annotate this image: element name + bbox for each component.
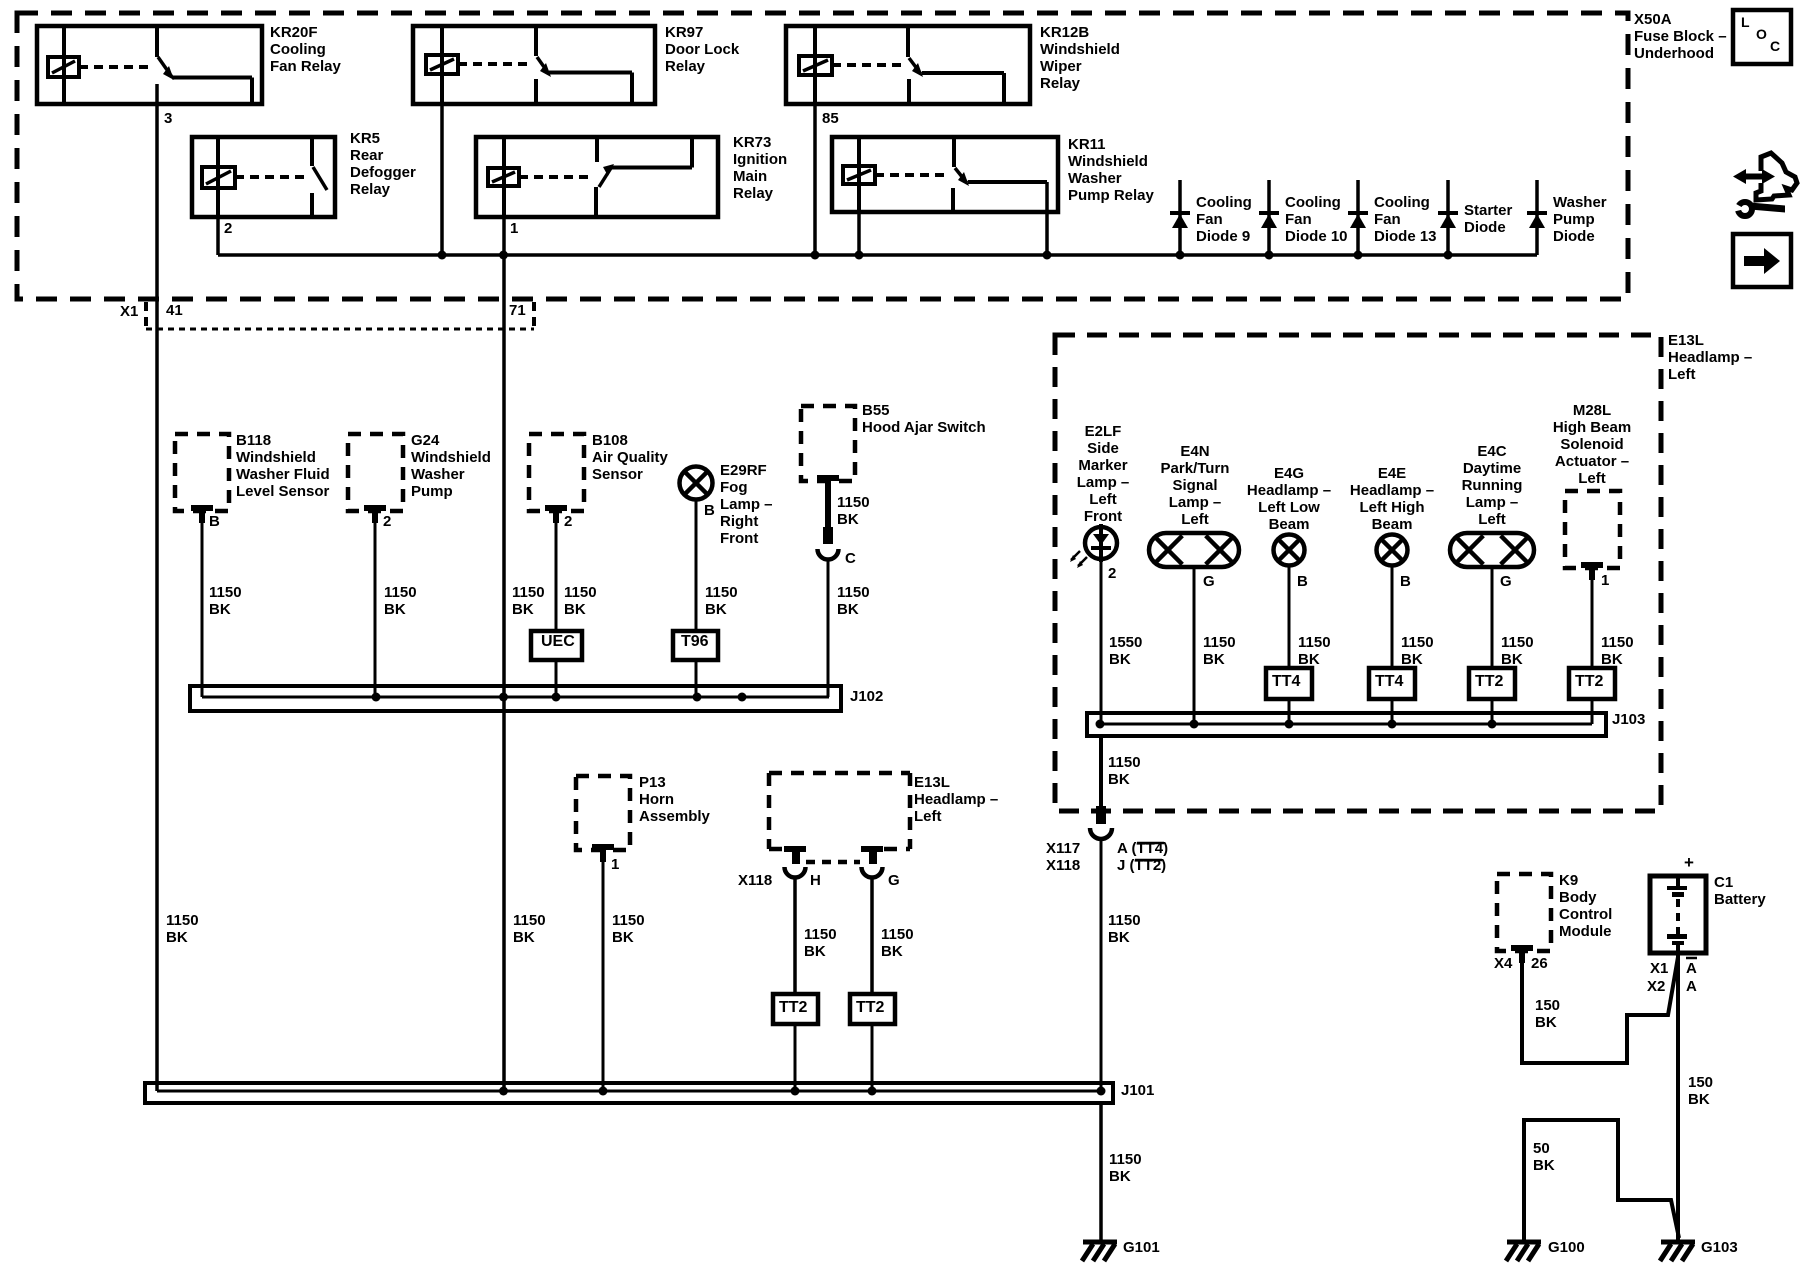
svg-text:C: C [845, 550, 856, 567]
svg-text:Diode: Diode [1464, 219, 1506, 236]
svg-text:Front: Front [1084, 508, 1122, 525]
wire E4N to J103 [1193, 567, 1196, 724]
svg-text:Air Quality: Air Quality [592, 449, 669, 466]
svg-text:Cooling: Cooling [1374, 194, 1430, 211]
svg-text:Fuse Block –: Fuse Block – [1634, 28, 1727, 45]
svg-text:BK: BK [1501, 651, 1523, 668]
svg-text:150: 150 [1535, 997, 1560, 1014]
junction dots on J101 [499, 1087, 1106, 1096]
wire B108 to UEC [555, 523, 558, 631]
svg-text:1150: 1150 [1601, 634, 1634, 651]
svg-text:1150: 1150 [512, 584, 545, 601]
svg-text:Marker: Marker [1078, 457, 1127, 474]
ground G100 [1506, 1242, 1541, 1261]
svg-text:150: 150 [1688, 1074, 1713, 1091]
svg-text:Beam: Beam [1269, 516, 1310, 533]
ground G101 [1082, 1242, 1117, 1261]
starter diode [1438, 180, 1458, 255]
svg-text:Relay: Relay [665, 58, 706, 75]
svg-text:TT4: TT4 [1272, 673, 1301, 690]
svg-text:J103: J103 [1612, 711, 1645, 728]
svg-text:Relay: Relay [1040, 75, 1081, 92]
icon forward arrow box [1733, 234, 1791, 287]
svg-text:B55: B55 [862, 402, 890, 419]
svg-text:Right: Right [720, 513, 758, 530]
svg-text:BK: BK [166, 929, 188, 946]
svg-text:Module: Module [1559, 923, 1612, 940]
wire TT2 to J101 [794, 1024, 797, 1091]
svg-text:X2: X2 [1647, 978, 1665, 995]
svg-text:Diode: Diode [1553, 228, 1595, 245]
icon vehicle part with arrows and wrench [1728, 153, 1797, 216]
wire G24 to J102 [374, 523, 377, 697]
svg-text:1150: 1150 [1108, 754, 1141, 771]
svg-text:2: 2 [224, 220, 232, 237]
svg-text:BK: BK [1203, 651, 1225, 668]
svg-text:Relay: Relay [733, 185, 774, 202]
svg-text:BK: BK [1535, 1014, 1557, 1031]
fuse block X50A dashed border [17, 13, 1628, 299]
svg-text:KR20F: KR20F [270, 24, 318, 41]
svg-text:A: A [1686, 960, 1697, 977]
svg-text:Assembly: Assembly [639, 808, 711, 825]
connector X117/X118 inline [1090, 806, 1112, 839]
svg-text:T96: T96 [681, 633, 709, 650]
svg-text:Cooling: Cooling [270, 41, 326, 58]
splice bus J103 [1087, 713, 1606, 736]
wire B118 to J102 [201, 523, 204, 697]
wire KR5 pin 2 to bus [216, 217, 220, 255]
svg-text:Diode 13: Diode 13 [1374, 228, 1437, 245]
svg-text:BK: BK [384, 601, 406, 618]
svg-text:Lamp –: Lamp – [1077, 474, 1130, 491]
svg-text:KR5: KR5 [350, 130, 380, 147]
svg-text:Rear: Rear [350, 147, 384, 164]
svg-text:Windshield: Windshield [236, 449, 316, 466]
wire E4C to TT2 [1491, 567, 1494, 668]
svg-text:Starter: Starter [1464, 202, 1513, 219]
svg-text:P13: P13 [639, 774, 666, 791]
svg-text:KR73: KR73 [733, 134, 771, 151]
wire TT4 to J103 [1391, 699, 1394, 724]
wire E4G to TT4 [1288, 566, 1291, 668]
svg-text:BK: BK [513, 929, 535, 946]
svg-text:Pump: Pump [1553, 211, 1595, 228]
svg-text:Diode 10: Diode 10 [1285, 228, 1348, 245]
component B108 Air Quality Sensor dashed box [529, 434, 584, 523]
svg-text:B118: B118 [236, 432, 271, 449]
svg-text:Pump Relay: Pump Relay [1068, 187, 1155, 204]
wire E4E to TT4 [1391, 566, 1394, 668]
svg-text:G: G [888, 872, 900, 889]
svg-text:1550: 1550 [1109, 634, 1142, 651]
lamp E4E Headlamp Left High Beam [1377, 535, 1408, 566]
svg-text:BK: BK [1401, 651, 1423, 668]
svg-text:Left: Left [1668, 366, 1696, 383]
svg-text:1150: 1150 [837, 584, 870, 601]
svg-text:Underhood: Underhood [1634, 45, 1714, 62]
component K9 Body Control Module dashed box [1497, 874, 1551, 963]
svg-text:Cooling: Cooling [1285, 194, 1341, 211]
svg-text:G101: G101 [1123, 1239, 1160, 1256]
junction dots on J102 [372, 693, 747, 702]
svg-text:BK: BK [1108, 929, 1130, 946]
battery C1 [1650, 876, 1706, 953]
svg-text:1150: 1150 [166, 912, 199, 929]
svg-text:TT2: TT2 [1575, 673, 1604, 690]
svg-text:Washer Fluid: Washer Fluid [236, 466, 330, 483]
washer pump diode [1527, 180, 1547, 255]
svg-text:X1: X1 [1650, 960, 1668, 977]
svg-text:1: 1 [510, 220, 518, 237]
svg-text:BK: BK [564, 601, 586, 618]
svg-text:B: B [704, 502, 715, 519]
component G24 Windshield Washer Pump dashed box [348, 434, 403, 523]
svg-text:J102: J102 [850, 688, 883, 705]
svg-text:Fog: Fog [720, 479, 748, 496]
svg-text:Washer: Washer [411, 466, 465, 483]
wire TT2 to J103 [1591, 699, 1594, 724]
svg-text:BK: BK [1109, 1168, 1131, 1185]
testpoint TT2 box [1569, 668, 1615, 699]
svg-text:1150: 1150 [1109, 1151, 1142, 1168]
svg-text:UEC: UEC [541, 633, 575, 650]
svg-text:Washer: Washer [1068, 170, 1122, 187]
svg-text:G: G [1500, 573, 1512, 590]
svg-text:E4G: E4G [1274, 465, 1304, 482]
svg-text:Door Lock: Door Lock [665, 41, 740, 58]
svg-text:BK: BK [837, 601, 859, 618]
svg-text:Headlamp –: Headlamp – [914, 791, 998, 808]
svg-text:BK: BK [1108, 771, 1130, 788]
svg-text:Control: Control [1559, 906, 1612, 923]
svg-text:E4C: E4C [1477, 443, 1506, 460]
svg-text:85: 85 [822, 110, 839, 127]
relay KR12B [786, 26, 1030, 104]
svg-text:Signal: Signal [1172, 477, 1217, 494]
wire KR73 pin 1 long wire to J101 [502, 217, 506, 1091]
svg-text:Relay: Relay [350, 181, 391, 198]
svg-text:Left: Left [1478, 511, 1506, 528]
svg-text:E4E: E4E [1378, 465, 1406, 482]
wire KR20F pin 3 to J101 [155, 84, 159, 1091]
label A-bar A [1686, 958, 1697, 995]
testpoint TT2 box [773, 994, 818, 1024]
svg-text:O: O [1756, 26, 1767, 42]
svg-text:1150: 1150 [1401, 634, 1434, 651]
splice bus J102 [190, 686, 841, 711]
svg-text:BK: BK [209, 601, 231, 618]
svg-text:41: 41 [166, 302, 183, 319]
svg-text:E2LF: E2LF [1085, 423, 1122, 440]
svg-text:B: B [209, 513, 220, 530]
svg-text:Beam: Beam [1372, 516, 1413, 533]
wire T96 to J102 [695, 660, 698, 697]
connector T96 box [673, 631, 718, 660]
svg-text:A: A [1686, 978, 1697, 995]
svg-text:Park/Turn: Park/Turn [1161, 460, 1230, 477]
connector C inline [818, 527, 839, 560]
svg-text:Daytime: Daytime [1463, 460, 1521, 477]
svg-text:Battery: Battery [1714, 891, 1766, 908]
svg-text:1: 1 [611, 856, 619, 873]
svg-text:G103: G103 [1701, 1239, 1738, 1256]
svg-text:X118: X118 [738, 872, 772, 889]
svg-text:1150: 1150 [881, 926, 914, 943]
svg-text:X117: X117 [1046, 840, 1080, 857]
svg-text:1150: 1150 [513, 912, 546, 929]
svg-text:X1: X1 [120, 303, 138, 320]
svg-text:KR12B: KR12B [1040, 24, 1089, 41]
svg-text:B: B [1400, 573, 1411, 590]
svg-text:Left: Left [1181, 511, 1209, 528]
svg-text:Washer: Washer [1553, 194, 1607, 211]
svg-text:Headlamp –: Headlamp – [1350, 482, 1434, 499]
testpoint TT4 box [1369, 668, 1415, 699]
wire KR11 output to bus [1045, 182, 1049, 255]
svg-text:1150: 1150 [612, 912, 645, 929]
svg-text:BK: BK [804, 943, 826, 960]
svg-text:71: 71 [509, 302, 526, 319]
svg-text:1150: 1150 [384, 584, 417, 601]
svg-text:1150: 1150 [1501, 634, 1534, 651]
svg-text:Fan: Fan [1285, 211, 1312, 228]
svg-text:Left: Left [1578, 470, 1606, 487]
wire B55 to connector C [825, 481, 831, 529]
wire P13 to J101 [602, 862, 605, 1091]
svg-text:BK: BK [837, 511, 859, 528]
svg-text:1150: 1150 [1108, 912, 1141, 929]
wire KR11 coil to bus [857, 212, 861, 255]
wire UEC to J102 [555, 660, 558, 697]
svg-text:Windshield: Windshield [1040, 41, 1120, 58]
svg-text:G24: G24 [411, 432, 440, 449]
wire KR12B pin 85 to bus [813, 104, 817, 255]
lamp E29RF Fog Lamp Right Front [680, 467, 713, 500]
svg-text:Headlamp –: Headlamp – [1247, 482, 1331, 499]
svg-text:1150: 1150 [209, 584, 242, 601]
svg-text:Left High: Left High [1360, 499, 1425, 516]
connector UEC box [531, 631, 582, 660]
svg-text:K9: K9 [1559, 872, 1578, 889]
svg-text:BK: BK [1298, 651, 1320, 668]
wire TT2 to J101 [871, 1024, 874, 1091]
component E13L Headlamp Left lower dashed box [769, 773, 910, 862]
svg-text:Cooling: Cooling [1196, 194, 1252, 211]
svg-text:Wiper: Wiper [1040, 58, 1082, 75]
component M28L High Beam Solenoid Actuator dashed box [1565, 491, 1620, 580]
svg-text:BK: BK [1688, 1091, 1710, 1108]
lamp E2LF Side Marker Lamp Left Front [1070, 524, 1117, 568]
label A (TT4) J (TT2) [1117, 840, 1168, 874]
svg-text:X50A: X50A [1634, 11, 1672, 28]
wire E2LF to J103 [1100, 560, 1103, 724]
svg-text:Body: Body [1559, 889, 1597, 906]
svg-text:TT2: TT2 [1475, 673, 1504, 690]
svg-text:3: 3 [164, 110, 172, 127]
wire KR97 coil to bus [440, 104, 444, 255]
wire TT4 to J103 [1288, 699, 1291, 724]
svg-text:Sensor: Sensor [592, 466, 643, 483]
svg-text:1150: 1150 [564, 584, 597, 601]
wire C to J102 [827, 559, 830, 697]
svg-text:2: 2 [564, 513, 572, 530]
wire M28L to TT2 [1591, 580, 1594, 668]
wire J103 to X117 connector [1099, 736, 1103, 806]
svg-text:E29RF: E29RF [720, 462, 767, 479]
junction dots on bus [438, 251, 1453, 260]
lamp E4G Headlamp Left Low Beam [1274, 535, 1305, 566]
wire E29RF to T96 [695, 500, 698, 631]
component B118 Windshield Washer Fluid Level Sensor dashed box [175, 434, 229, 523]
svg-text:1150: 1150 [705, 584, 738, 601]
svg-text:1150: 1150 [804, 926, 837, 943]
wire TT2 to J103 [1491, 699, 1494, 724]
lamp E4C Daytime Running Lamp Left [1450, 533, 1534, 567]
splice bus J101 [145, 1083, 1113, 1103]
svg-text:Windshield: Windshield [1068, 153, 1148, 170]
svg-text:Ignition: Ignition [733, 151, 787, 168]
svg-text:E13L: E13L [914, 774, 950, 791]
svg-text:Left: Left [914, 808, 942, 825]
svg-text:Lamp –: Lamp – [1169, 494, 1222, 511]
relay KR73 [476, 137, 718, 217]
label X1 X2 [1647, 960, 1668, 995]
svg-text:BK: BK [881, 943, 903, 960]
svg-text:X4: X4 [1494, 955, 1513, 972]
svg-text:Horn: Horn [639, 791, 674, 808]
svg-text:BK: BK [612, 929, 634, 946]
svg-text:H: H [810, 872, 821, 889]
svg-text:BK: BK [705, 601, 727, 618]
svg-text:Pump: Pump [411, 483, 453, 500]
connector X1 strip [146, 302, 534, 329]
testpoint TT4 box [1266, 668, 1312, 699]
svg-text:1: 1 [1601, 572, 1609, 589]
component P13 Horn Assembly dashed box [576, 776, 630, 862]
svg-text:J101: J101 [1121, 1082, 1154, 1099]
svg-text:50: 50 [1533, 1140, 1550, 1157]
ground G103 [1660, 1242, 1695, 1261]
svg-text:TT2: TT2 [856, 999, 885, 1016]
wire K9 ground 150 BK to battery negative [1522, 957, 1678, 1063]
svg-text:Windshield: Windshield [411, 449, 491, 466]
relay KR20F [37, 26, 262, 104]
wire X117 to J101 [1100, 839, 1103, 1091]
relay KR5 [192, 137, 335, 217]
cooling fan diode 10 [1259, 180, 1279, 255]
svg-text:Level Sensor: Level Sensor [236, 483, 330, 500]
svg-text:KR11: KR11 [1068, 136, 1106, 153]
svg-text:Lamp –: Lamp – [720, 496, 773, 513]
svg-text:Headlamp –: Headlamp – [1668, 349, 1752, 366]
svg-text:E13L: E13L [1668, 332, 1704, 349]
cooling fan diode 9 [1170, 180, 1190, 255]
wire J101 to ground G101 [1099, 1103, 1103, 1242]
svg-text:G100: G100 [1548, 1239, 1585, 1256]
relay KR11 [832, 137, 1058, 212]
svg-text:B108: B108 [592, 432, 628, 449]
connector pin G of E13L [861, 846, 883, 878]
svg-text:Fan: Fan [1196, 211, 1223, 228]
svg-text:G: G [1203, 573, 1215, 590]
svg-text:Diode 9: Diode 9 [1196, 228, 1250, 245]
relay KR97 [413, 26, 655, 104]
component E13L Headlamp Left dashed box [1055, 335, 1661, 811]
svg-text:Fan: Fan [1374, 211, 1401, 228]
svg-text:L: L [1741, 14, 1750, 30]
svg-text:Solenoid: Solenoid [1560, 436, 1623, 453]
svg-text:C1: C1 [1714, 874, 1733, 891]
svg-text:M28L: M28L [1573, 402, 1611, 419]
svg-text:C: C [1770, 38, 1780, 54]
svg-text:Side: Side [1087, 440, 1119, 457]
svg-text:KR97: KR97 [665, 24, 703, 41]
svg-text:Fan Relay: Fan Relay [270, 58, 342, 75]
svg-text:Main: Main [733, 168, 767, 185]
svg-text:X118: X118 [1046, 857, 1080, 874]
junction dots on J103 [1096, 720, 1497, 729]
svg-text:Left Low: Left Low [1258, 499, 1320, 516]
lamp E4N Park/Turn Signal Lamp Left [1149, 533, 1239, 567]
wire H to TT2 [793, 877, 797, 994]
cooling fan diode 13 [1348, 180, 1368, 255]
svg-text:Front: Front [720, 530, 758, 547]
svg-text:1150: 1150 [837, 494, 870, 511]
svg-text:B: B [1297, 573, 1308, 590]
svg-text:BK: BK [1533, 1157, 1555, 1174]
svg-text:BK: BK [1601, 651, 1623, 668]
testpoint TT2 box [850, 994, 895, 1024]
svg-text:Defogger: Defogger [350, 164, 416, 181]
svg-text:High Beam: High Beam [1553, 419, 1631, 436]
svg-text:Running: Running [1462, 477, 1523, 494]
svg-text:TT2: TT2 [779, 999, 808, 1016]
wire G to TT2 [870, 877, 874, 994]
fuse block ground bus wire [218, 253, 1537, 257]
svg-text:Lamp –: Lamp – [1466, 494, 1519, 511]
svg-text:BK: BK [1109, 651, 1131, 668]
svg-text:TT4: TT4 [1375, 673, 1404, 690]
wire 50 BK to ground G100 [1524, 1120, 1679, 1242]
wire battery negative to ground G103 [1676, 953, 1680, 1242]
svg-text:26: 26 [1531, 955, 1548, 972]
svg-text:Left: Left [1089, 491, 1117, 508]
svg-text:1150: 1150 [1298, 634, 1331, 651]
svg-text:Actuator –: Actuator – [1555, 453, 1629, 470]
svg-text:E4N: E4N [1180, 443, 1209, 460]
svg-text:2: 2 [1108, 565, 1116, 582]
svg-text:+: + [1684, 853, 1694, 872]
svg-text:BK: BK [512, 601, 534, 618]
svg-text:Hood Ajar Switch: Hood Ajar Switch [862, 419, 986, 436]
icon LOC box [1733, 10, 1791, 64]
svg-text:1150: 1150 [1203, 634, 1236, 651]
component B55 Hood Ajar Switch dashed box [801, 406, 855, 493]
testpoint TT2 box [1469, 668, 1515, 699]
connector pin H of E13L [784, 846, 806, 878]
svg-text:2: 2 [383, 513, 391, 530]
